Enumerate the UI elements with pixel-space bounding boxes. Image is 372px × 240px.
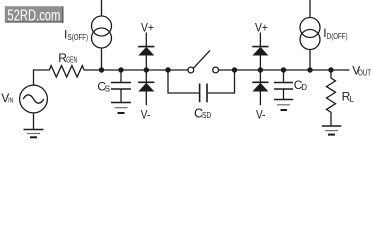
svg-text:V-: V- [256,108,266,122]
wire switch-to-VOUT [219,69,350,71]
svg-text:OUT: OUT [358,69,371,78]
wire VIN to ground [33,113,35,129]
capacitor CS [120,70,122,83]
ground RL [322,126,342,135]
junction switch output / CSD right node [232,67,237,72]
junction RL / VOUT node [328,67,333,72]
junction D1/D2 node [144,67,149,72]
source VIN circle [20,85,48,113]
current source ID(OFF) [309,0,311,18]
junction D3/D4 node [258,67,263,72]
ground CD [274,100,293,111]
junction IS(OFF) node [99,67,104,72]
diode upper D1 to V+ [145,33,147,48]
svg-text:52RD.com: 52RD.com [7,8,60,25]
junction ID(OFF) node [307,67,312,72]
resistor RL [327,70,336,126]
ground CS [111,103,131,114]
svg-text:V+: V+ [255,20,268,34]
ground VIN [24,130,44,138]
capacitor CSD with wires [168,70,199,93]
junction switch input / CSD left node [165,67,170,72]
sine wave inside VIN [23,95,44,103]
svg-text:SD: SD [202,111,211,120]
svg-text:IN: IN [8,96,13,105]
capacitor CD [283,70,285,83]
diode lower D4 to V- [259,70,261,82]
svg-text:D: D [301,83,307,92]
svg-text:S: S [105,85,110,94]
svg-text:GEN: GEN [66,56,77,65]
switch S1 [188,67,194,73]
wire main horizontal bus [84,69,188,71]
diode upper D3 to V+ [259,33,261,48]
resistor RGEN [49,66,84,77]
svg-text:S(OFF): S(OFF) [68,33,89,42]
svg-text:D(OFF): D(OFF) [327,32,348,41]
diode lower D2 to V- [145,70,147,82]
svg-text:V+: V+ [141,20,154,34]
junction CD node [281,67,286,72]
junction CS node [118,67,123,72]
watermark 52RD.com [5,6,64,25]
svg-text:V-: V- [141,107,151,121]
wire VIN top corner [34,70,50,85]
svg-text:L: L [350,95,355,104]
current source IS(OFF) [101,0,103,16]
